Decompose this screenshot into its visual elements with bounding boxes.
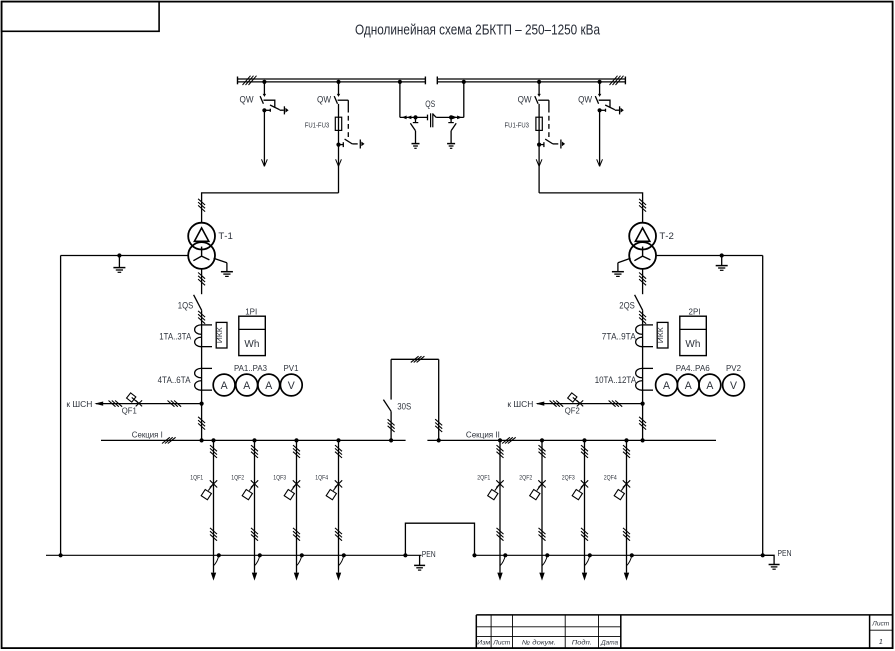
- label QW: [578, 95, 592, 105]
- svg-text:A: A: [706, 380, 714, 392]
- feeder breaker 1QF1: [201, 438, 221, 580]
- label QW: [240, 95, 254, 105]
- svg-text:2QS: 2QS: [619, 300, 635, 310]
- drawing title: [355, 22, 600, 39]
- label 1PI: [245, 307, 257, 316]
- current transformers 10TA..12TA: [636, 368, 653, 390]
- disconnector QW (section 2 outer): [595, 80, 624, 167]
- label PA1..PA3: [234, 364, 267, 373]
- svg-text:к ШСН: к ШСН: [507, 399, 533, 409]
- label QF2: [565, 407, 580, 416]
- svg-text:4ТА..6ТА: 4ТА..6ТА: [158, 375, 191, 385]
- ground on PEN right: [763, 555, 780, 569]
- disconnector QW (section 1 outer): [260, 80, 289, 167]
- svg-text:1QF4: 1QF4: [315, 475, 328, 482]
- label 1QF2: [231, 475, 244, 482]
- label FU1-FU3: [505, 120, 530, 129]
- label QW: [518, 95, 532, 105]
- left riser wire: [60, 256, 62, 556]
- voltmeter PV2: [723, 374, 745, 396]
- svg-text:1QF1: 1QF1: [190, 475, 203, 482]
- disconnector 2QS: [635, 269, 647, 440]
- current transformers 7TA..9TA: [636, 325, 653, 347]
- bus Секция II: [427, 437, 716, 443]
- label 1TA..3TA: [159, 332, 191, 342]
- wire to transformer T-1: [198, 193, 338, 222]
- label T-2: [659, 231, 674, 241]
- feeder breaker 2QF1: [488, 438, 508, 580]
- svg-text:Wh: Wh: [685, 338, 700, 350]
- svg-text:A: A: [685, 380, 693, 392]
- svg-text:10ТА..12ТА: 10ТА..12ТА: [595, 375, 637, 385]
- label 2QS: [619, 300, 635, 310]
- current transformers 1TA..3TA: [195, 325, 212, 347]
- transformer T-1: [188, 223, 215, 269]
- svg-text:Секция I: Секция I: [132, 429, 163, 439]
- label 30S: [397, 401, 411, 411]
- test box IKK right: [656, 322, 668, 348]
- svg-text:QW: QW: [317, 95, 331, 105]
- feeder breaker 2QF2: [530, 438, 550, 580]
- ground at T-2 tank: [612, 258, 631, 276]
- label QW: [317, 95, 331, 105]
- svg-text:ИКК: ИКК: [656, 326, 665, 343]
- meter 2PI (Wh): [680, 316, 707, 355]
- svg-text:QS: QS: [425, 99, 435, 109]
- circuit breaker QF1 (to ШСН): [94, 393, 203, 407]
- label 1QS: [178, 300, 194, 310]
- label 2QF1: [477, 475, 490, 482]
- label 1QF3: [273, 475, 286, 482]
- earthing switch QS (incomer tie): [398, 80, 466, 149]
- svg-text:№ докум.: № докум.: [522, 638, 556, 646]
- feeder breaker 1QF2: [242, 438, 262, 580]
- label 7TA..9TA: [602, 332, 636, 342]
- label PV1: [284, 364, 299, 373]
- transformer T-2: [629, 223, 656, 269]
- label T-1: [218, 231, 233, 241]
- svg-text:PEN: PEN: [422, 549, 436, 559]
- svg-text:Т-2: Т-2: [659, 231, 674, 241]
- svg-text:PA4..PA6: PA4..PA6: [676, 364, 710, 373]
- wire to transformer T-2: [539, 193, 646, 222]
- svg-text:1QF2: 1QF2: [231, 475, 244, 482]
- label PV2: [726, 364, 741, 373]
- svg-text:1ТА..3ТА: 1ТА..3ТА: [159, 332, 191, 342]
- svg-text:Wh: Wh: [244, 338, 259, 350]
- ground on LV wire right: [716, 256, 728, 271]
- svg-text:7ТА..9ТА: 7ТА..9ТА: [602, 332, 636, 342]
- svg-text:Лист: Лист: [871, 621, 889, 628]
- feeder breaker 1QF4: [326, 438, 346, 580]
- svg-text:2PI: 2PI: [689, 307, 701, 316]
- label PA4..PA6: [676, 364, 710, 373]
- svg-text:1QF3: 1QF3: [273, 475, 286, 482]
- svg-text:A: A: [243, 380, 251, 392]
- label 4TA..6TA: [158, 375, 191, 385]
- ground on PEN left: [414, 555, 425, 570]
- svg-text:A: A: [221, 380, 229, 392]
- ammeters PA4..PA6: [656, 374, 721, 396]
- ground on LV wire left: [113, 256, 125, 273]
- 10kV busbar section 1 (left): [238, 76, 426, 85]
- PEN bus section 2: [475, 553, 765, 557]
- label 2QF4: [604, 475, 617, 482]
- label к ШСН (left): [66, 399, 92, 409]
- svg-text:QW: QW: [518, 95, 532, 105]
- svg-text:Подп.: Подп.: [572, 638, 592, 646]
- svg-text:2QF1: 2QF1: [477, 475, 490, 482]
- svg-text:Т-1: Т-1: [218, 231, 233, 241]
- svg-text:QF1: QF1: [122, 407, 137, 416]
- label QF1: [122, 407, 137, 416]
- ground at T-1 tank: [214, 258, 233, 276]
- svg-text:Секция II: Секция II: [466, 429, 500, 439]
- label 2QF2: [519, 475, 532, 482]
- label 1QF4: [315, 475, 328, 482]
- PEN bus section 1 with bridge: [46, 523, 477, 557]
- voltmeter PV1: [280, 374, 302, 396]
- test box IKK left: [215, 322, 227, 348]
- svg-text:Дата: Дата: [600, 639, 618, 646]
- svg-text:QF2: QF2: [565, 407, 580, 416]
- svg-text:FU1-FU3: FU1-FU3: [305, 120, 330, 129]
- label FU1-FU3: [305, 120, 330, 129]
- label Секция II: [466, 429, 500, 439]
- wire T-1 LV to left riser: [61, 253, 189, 257]
- label 2PI: [689, 307, 701, 316]
- svg-text:Однолинейная схема 2БКТП – 250: Однолинейная схема 2БКТП – 250–1250 кВа: [355, 22, 600, 39]
- svg-text:V: V: [730, 380, 738, 392]
- 10kV busbar section 2 (right): [437, 76, 625, 85]
- ammeters PA1..PA3: [213, 374, 279, 396]
- svg-text:ИКК: ИКК: [215, 326, 224, 343]
- svg-text:PEN: PEN: [778, 548, 792, 558]
- svg-text:2QF4: 2QF4: [604, 475, 617, 482]
- label 1QF1: [190, 475, 203, 482]
- svg-text:1PI: 1PI: [245, 307, 257, 316]
- bus tie switch 30S: [383, 356, 442, 442]
- svg-text:V: V: [288, 380, 296, 392]
- svg-text:A: A: [265, 380, 273, 392]
- svg-text:1: 1: [879, 637, 883, 646]
- svg-text:2QF2: 2QF2: [519, 475, 532, 482]
- wire T-2 LV to right riser: [656, 253, 763, 257]
- svg-text:30S: 30S: [397, 401, 411, 411]
- svg-text:PV2: PV2: [726, 364, 741, 373]
- label PEN (left): [422, 549, 436, 559]
- svg-text:к ШСН: к ШСН: [66, 399, 92, 409]
- feeder breaker 1QF3: [284, 438, 304, 580]
- circuit breaker QF2 (to ШСН): [536, 393, 645, 407]
- label к ШСН (right): [507, 399, 533, 409]
- svg-text:2QF3: 2QF3: [562, 475, 575, 482]
- label QS: [425, 99, 435, 109]
- right riser wire: [762, 256, 764, 556]
- svg-text:PV1: PV1: [284, 364, 299, 373]
- svg-text:QW: QW: [578, 95, 592, 105]
- fuse-disconnector QW (section 1): [334, 80, 364, 193]
- svg-text:FU1-FU3: FU1-FU3: [505, 120, 530, 129]
- fuse-disconnector QW (section 2): [535, 80, 565, 193]
- label 10TA..12TA: [595, 375, 637, 385]
- feeder breaker 2QF4: [614, 438, 634, 580]
- svg-text:Изм: Изм: [477, 639, 491, 646]
- svg-text:1QS: 1QS: [178, 300, 194, 310]
- svg-text:QW: QW: [240, 95, 254, 105]
- svg-text:PA1..PA3: PA1..PA3: [234, 364, 267, 373]
- label 2QF3: [562, 475, 575, 482]
- label Секция I: [132, 429, 163, 439]
- current transformers 4TA..6TA: [195, 368, 212, 390]
- meter 1PI (Wh): [239, 316, 265, 355]
- disconnector 1QS: [194, 269, 206, 440]
- label PEN (right): [778, 548, 792, 558]
- svg-text:Лист: Лист: [492, 639, 511, 646]
- bus Секция I: [101, 437, 406, 443]
- svg-text:A: A: [663, 380, 671, 392]
- feeder breaker 2QF3: [572, 438, 592, 580]
